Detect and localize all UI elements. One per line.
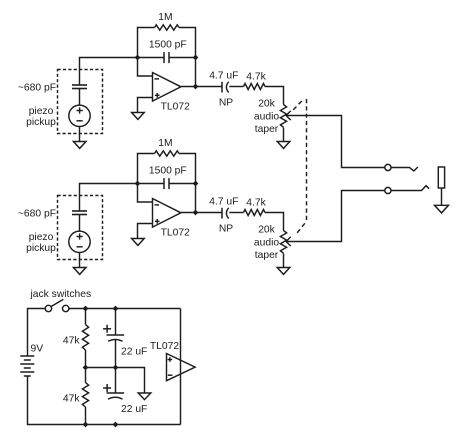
wire: coupling cap to 4.7k (2) [229,212,243,214]
node: output junction 2 [193,210,199,216]
svg-text:pickup: pickup [26,117,56,128]
svg-text:pickup: pickup [26,243,56,254]
node: inverting input junction 1 [135,55,141,61]
resistor 47k lower [82,383,88,408]
svg-text:4.7 uF: 4.7 uF [209,197,238,208]
resistor 1M (2) [155,151,180,156]
wire: wiper 1 to jack tip contact [286,116,385,168]
piezo pickup 1 dashed enclosure [58,70,103,134]
label 1M (1) [158,12,172,23]
wire: op-amp output 1 [181,86,222,88]
svg-text:20k: 20k [258,225,275,236]
output jack sleeve body [438,167,444,188]
label TL072 (2) [161,228,190,239]
battery 9V [20,356,34,376]
jack tip switch contact [391,167,418,171]
wire: 1500 pF right plate to feedback node (1) [169,57,196,59]
svg-text:9V: 9V [31,344,44,355]
label 1M (2) [158,138,172,149]
resistor 1M (1) [155,25,180,30]
wire: 22uF upper to midpoint [115,340,117,368]
wire: non-inverting input 1 to ground [138,98,153,113]
jack switch contact circles [45,305,69,311]
label 1500 pF (1) [149,40,187,51]
capacitor ~680 pF (piezo 1) [72,85,87,89]
ground op-amp 2 [132,239,145,246]
node: feedback right junction 2 [193,181,199,187]
svg-text:TL072: TL072 [161,102,190,113]
label 4.7k (2) [246,198,266,209]
node: V+ rail at filter cap [113,306,119,312]
svg-text:22 uF: 22 uF [121,404,147,415]
wire: jack sleeve to ground [441,188,443,205]
svg-text:TL072: TL072 [161,228,190,239]
jack ring switch contact [391,186,429,191]
wire: piezo pickup 1 output up to inverting node [80,58,138,85]
capacitor 22 uF upper (polarized) [107,335,125,341]
label TL072 (1) [161,102,190,113]
node: midpoint at filter caps [113,365,119,371]
wire: V+ rail to 47k upper [85,309,87,325]
svg-text:piezo: piezo [29,106,54,117]
label 4.7k (1) [246,72,266,83]
label 20k audio taper (2) [254,225,279,262]
wire: 4.7k to potentiometer top (1) [265,87,284,105]
svg-text:~680 pF: ~680 pF [18,83,56,94]
label 4.7 uF (2) [209,197,238,208]
svg-text:47k: 47k [63,394,80,405]
resistor 47k upper [82,325,88,351]
label 20k audio taper (1) [254,99,279,136]
capacitor 1500 pF (1) [164,52,169,63]
wire: feedback right riser (1) [179,28,196,87]
wire: pot 1 to ground [283,128,285,142]
capacitor ~680 pF (piezo 2) [72,211,87,215]
wire: inverting input (2) [138,184,153,203]
wire: switch to V+ rail [69,308,181,310]
op-amp U1B TL072 (2) [153,199,181,228]
wire: 47k upper to midpoint [85,350,87,368]
jack tip terminal circle [385,164,391,170]
label piezo pickup (2) [26,232,56,254]
label piezo pickup (1) [26,106,56,128]
wire: battery + up to jack switch [28,309,46,357]
label 22 uF upper [121,347,147,358]
capacitor 1500 pF (2) [164,178,169,189]
wire: source 2 to ground [79,253,81,268]
potentiometer 20k audio taper (2) [280,231,290,254]
ground op-amp 1 [132,113,145,120]
capacitor 4.7 uF NP (1) [222,82,229,93]
label jack switches [30,289,92,300]
label 22 uF lower [121,404,147,415]
label NP (2) [219,224,233,235]
wire: pot 2 to ground [283,254,285,268]
wire: capacitor to source (piezo 2) [79,215,81,232]
wire: node to 1500 pF left plate (2) [138,183,165,185]
jack ring terminal circle [385,187,391,193]
svg-text:22 uF: 22 uF [121,347,147,358]
label + (22uF lower) [103,384,111,392]
svg-text:1M: 1M [158,138,172,149]
potentiometer 20k audio taper (1) [280,105,290,128]
label NP (1) [219,98,233,109]
resistor 4.7k (2) [244,210,266,216]
wire: 4.7k to potentiometer top (2) [265,213,284,231]
wire: feedback left riser (1) [138,28,155,58]
wire: wiper 2 to jack ring contact [286,191,385,242]
svg-text:TL072: TL072 [150,341,179,352]
label 9V [31,344,44,355]
svg-text:1500 pF: 1500 pF [149,166,187,177]
svg-text:taper: taper [255,124,279,135]
wire: non-inverting input 2 to ground [138,224,153,239]
wire: feedback right riser (2) [179,154,196,213]
ground piezo 1 [73,142,86,149]
wire: coupling cap to 4.7k (1) [229,86,243,88]
piezo pickup 2 dashed enclosure [58,196,103,260]
svg-text:jack switches: jack switches [30,289,92,300]
svg-text:~680 pF: ~680 pF [18,209,56,220]
label 4.7 uF (1) [209,71,238,82]
node: feedback right junction 1 [193,55,199,61]
jack switch lever [51,299,63,306]
svg-text:NP: NP [219,98,233,109]
label 47k lower [63,394,80,405]
svg-text:4.7k: 4.7k [246,72,266,83]
node: ground rail at divider [83,422,89,428]
ground piezo 2 [73,268,86,275]
svg-text:audio: audio [254,112,279,123]
wire: 47k lower to ground rail [85,407,87,425]
svg-text:NP: NP [219,224,233,235]
label + (22uF upper) [103,325,111,333]
wire: V+ rail right side [180,309,182,425]
ground pot 2 [277,268,290,275]
AC source symbol piezo 1 [69,105,90,126]
label 1500 pF (2) [149,166,187,177]
ground jack sleeve [435,205,449,213]
node: inverting input junction 2 [135,181,141,187]
node: ground rail at filter cap [113,422,119,428]
ground virtual (midpoint) [138,393,151,400]
wire: midpoint rail to virtual ground drop [86,368,145,394]
wire: inverting input (1) [138,58,153,77]
svg-text:1M: 1M [158,12,172,23]
resistor 4.7k (1) [244,84,266,90]
op-amp U2 TL072 rail-splitter buffer [167,354,196,381]
svg-text:1500 pF: 1500 pF [149,40,187,51]
wire: op-amp output 2 [181,212,222,214]
label TL072 buffer [150,341,179,352]
svg-text:piezo: piezo [29,232,54,243]
svg-text:47k: 47k [63,336,80,347]
capacitor 4.7 uF NP (2) [222,208,229,219]
capacitor 22 uF lower (polarized) [107,393,125,399]
wire: 1500 pF right plate to feedback node (2) [169,183,196,185]
svg-text:20k: 20k [258,99,275,110]
label ~680 pF (1) [18,83,56,94]
svg-text:4.7k: 4.7k [246,198,266,209]
wire: midpoint to 22uF lower [115,368,117,394]
svg-text:taper: taper [255,250,279,261]
label 47k upper [63,336,80,347]
svg-text:4.7 uF: 4.7 uF [209,71,238,82]
node: output junction 1 [193,84,199,90]
wire: battery - to ground rail [28,376,181,425]
node: V+ rail at divider [83,306,89,312]
wire: feedback left riser (2) [138,154,155,184]
svg-text:audio: audio [254,238,279,249]
wire: source 1 to ground [79,127,81,142]
wire: capacitor to source (piezo 1) [79,89,81,106]
node: divider midpoint [83,365,89,371]
wire: V+ rail to 22uF upper [115,309,117,336]
op-amp U1A TL072 (1) [153,73,181,102]
ground pot 1 [277,142,290,149]
AC source symbol piezo 2 [69,231,90,252]
dashed gang link between pot wipers [293,99,306,235]
label ~680 pF (2) [18,209,56,220]
wire: node to 1500 pF left plate (1) [138,57,165,59]
wire: midpoint to 47k lower [85,368,87,383]
wire: piezo pickup 2 output up to inverting node [80,184,138,211]
